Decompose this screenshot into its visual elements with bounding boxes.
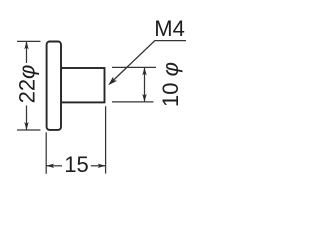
svg-text:22φ: 22φ bbox=[15, 65, 40, 104]
svg-text:10 φ: 10 φ bbox=[158, 62, 183, 107]
svg-text:M4: M4 bbox=[154, 16, 185, 41]
svg-text:15: 15 bbox=[64, 152, 88, 177]
